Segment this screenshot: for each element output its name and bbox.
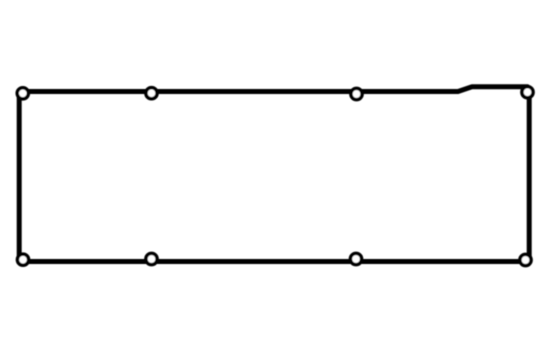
wire top edge bbox=[23, 87, 528, 92]
bolt hole top-mid-left bbox=[146, 88, 157, 99]
bolt hole bottom-left bbox=[17, 254, 28, 265]
bolt hole top-left bbox=[17, 88, 28, 99]
bolt hole bottom-mid-left bbox=[146, 253, 157, 264]
bolt hole bottom-right bbox=[520, 254, 531, 265]
bolt hole top-mid-right bbox=[351, 88, 362, 99]
bolt hole top-right bbox=[522, 87, 533, 98]
wire bottom edge bbox=[23, 259, 526, 264]
wire left edge bbox=[17, 92, 22, 261]
bolt hole bottom-mid-right bbox=[350, 253, 361, 264]
wire right edge bbox=[527, 91, 532, 261]
